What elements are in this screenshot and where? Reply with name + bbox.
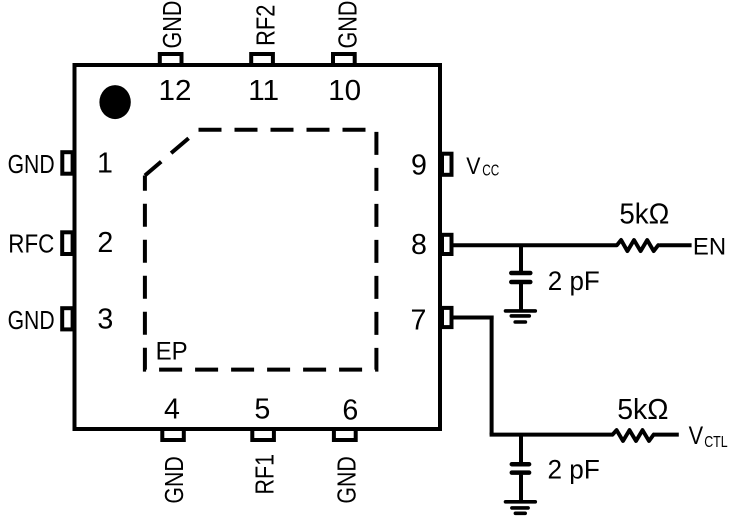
- ground symbol (C2): [506, 502, 536, 514]
- svg-text:4: 4: [164, 394, 180, 426]
- svg-text:10: 10: [328, 75, 361, 107]
- svg-text:5: 5: [254, 394, 270, 426]
- svg-text:1: 1: [97, 148, 113, 180]
- svg-text:2 pF: 2 pF: [548, 266, 600, 296]
- capacitor C2 top lead wire: [519, 435, 523, 464]
- wire resistor R2 to VCTL: [654, 433, 679, 437]
- exposed pad chamfer (dashed diagonal): [145, 130, 199, 176]
- svg-text:8: 8: [411, 229, 427, 261]
- capacitor C1 top lead wire: [519, 245, 523, 271]
- pin 5 stub: [252, 429, 274, 440]
- wire resistor R1 to EN: [659, 243, 691, 247]
- pin 12 stub: [160, 54, 182, 65]
- pin 6 stub: [334, 429, 356, 440]
- pin 11 stub: [251, 54, 273, 65]
- svg-text:GND: GND: [331, 456, 361, 503]
- pin 1 indicator dot: [99, 85, 130, 119]
- pin 7 stub: [442, 308, 452, 327]
- svg-text:7: 7: [411, 305, 427, 337]
- exposed pad EP dashed outline: [145, 130, 377, 370]
- svg-text:GND: GND: [332, 1, 362, 49]
- svg-text:6: 6: [342, 395, 358, 427]
- svg-text:5kΩ: 5kΩ: [619, 199, 669, 231]
- pin 4 stub: [162, 429, 184, 440]
- resistor R1: [617, 240, 658, 251]
- pin 10 stub: [333, 54, 355, 65]
- svg-text:V: V: [689, 423, 704, 450]
- capacitor C2 bottom lead wire: [519, 475, 523, 502]
- capacitor C1 bottom lead wire: [519, 284, 523, 311]
- pin 9 stub: [442, 154, 452, 175]
- svg-text:RFC: RFC: [8, 228, 54, 258]
- pin 3 stub: [62, 308, 72, 329]
- svg-text:3: 3: [97, 304, 113, 336]
- resistor R2: [613, 430, 654, 441]
- pin 2 stub: [62, 232, 72, 254]
- svg-text:EN: EN: [693, 234, 726, 261]
- wire pin 7 right segment: [452, 316, 494, 320]
- pin 1 stub: [62, 152, 72, 174]
- svg-text:RF1: RF1: [250, 454, 280, 495]
- svg-text:EP: EP: [156, 337, 188, 365]
- svg-text:CTL: CTL: [704, 434, 728, 451]
- svg-text:9: 9: [411, 150, 427, 182]
- svg-text:GND: GND: [157, 1, 187, 49]
- svg-text:12: 12: [159, 75, 192, 107]
- svg-text:11: 11: [248, 75, 279, 107]
- capacitor C1 plates: [511, 273, 530, 282]
- ground symbol (C1): [506, 311, 536, 322]
- svg-text:CC: CC: [482, 163, 499, 180]
- svg-text:2 pF: 2 pF: [548, 454, 600, 484]
- IC body U1: [75, 65, 441, 429]
- wire pin 7 vertical segment: [490, 316, 494, 435]
- wire pin 8 to resistor R1: [452, 243, 617, 247]
- svg-text:GND: GND: [159, 456, 189, 503]
- svg-text:GND: GND: [8, 149, 55, 179]
- svg-text:RF2: RF2: [250, 5, 280, 46]
- svg-text:2: 2: [97, 227, 113, 259]
- pin 8 stub: [442, 235, 452, 254]
- svg-text:5kΩ: 5kΩ: [617, 394, 668, 426]
- svg-text:GND: GND: [8, 305, 55, 335]
- svg-text:V: V: [466, 153, 480, 180]
- capacitor C2 plates: [512, 464, 529, 472]
- wire to resistor R2: [490, 433, 613, 437]
